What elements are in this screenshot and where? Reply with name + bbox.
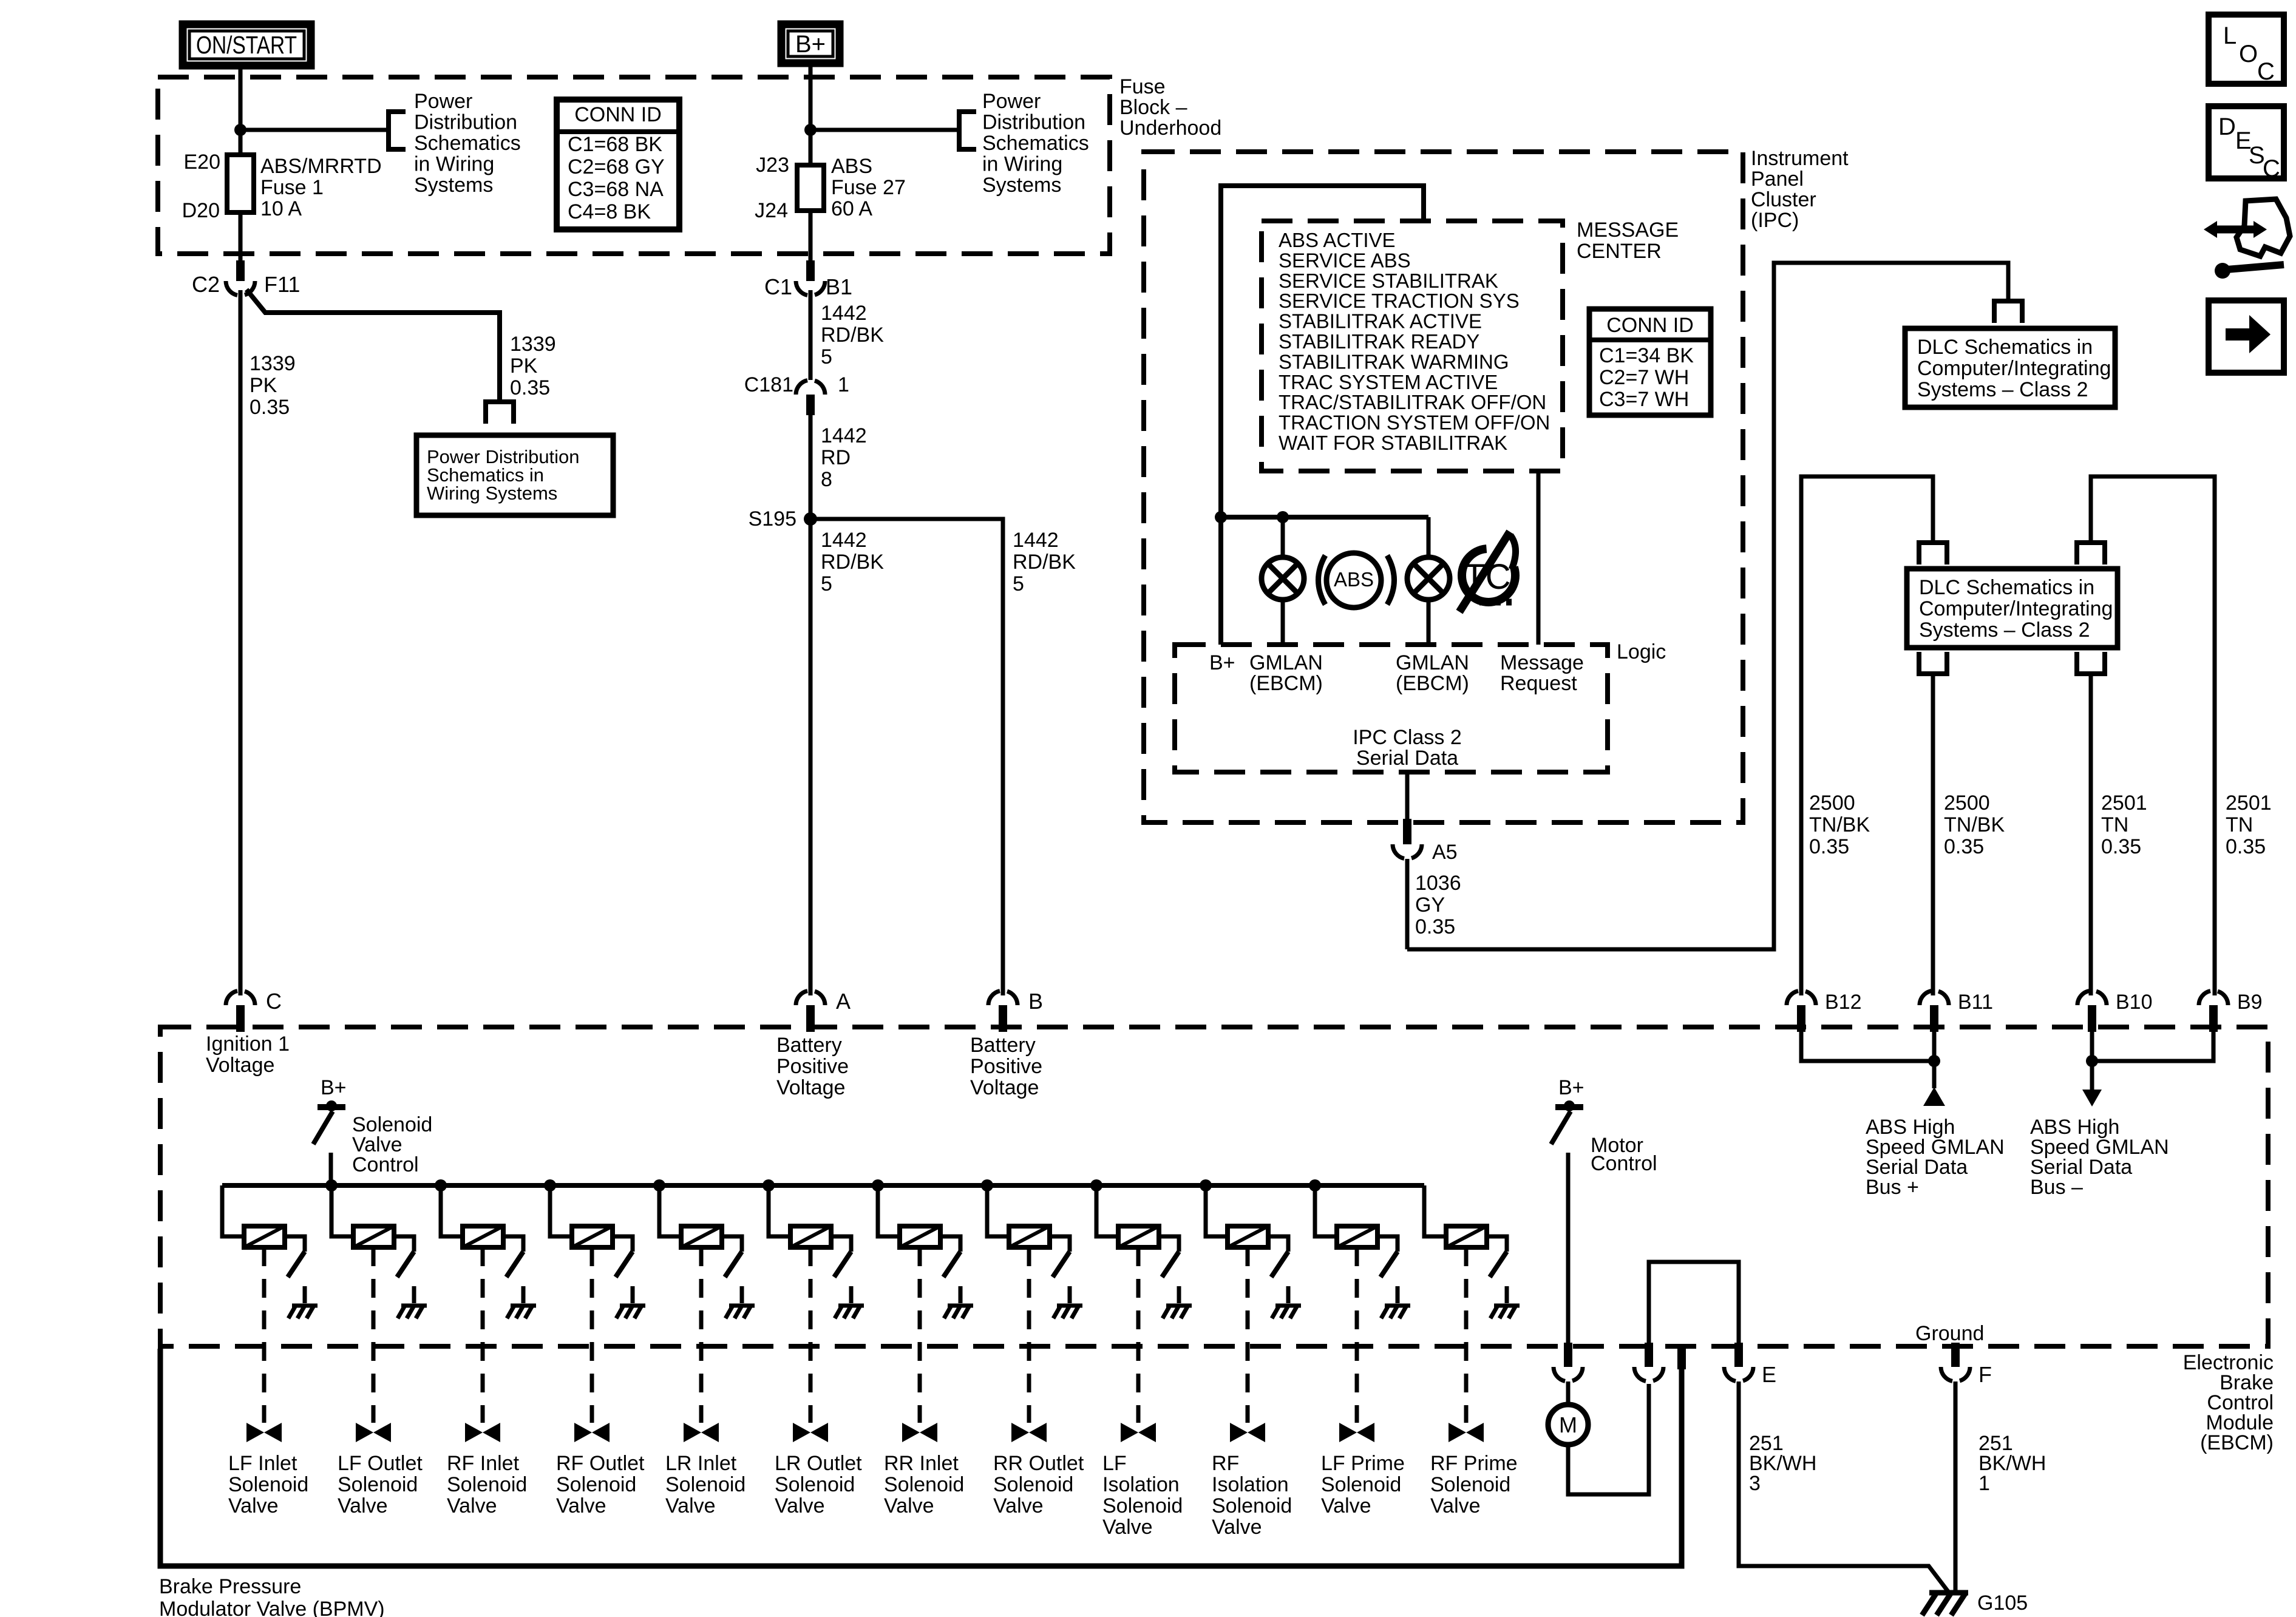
message center dashed box — [1262, 221, 1563, 471]
svg-text:RD/BK: RD/BK — [821, 324, 884, 347]
wire rail drop RF Outlet — [550, 1185, 572, 1236]
svg-text:Ignition 1: Ignition 1 — [206, 1032, 290, 1056]
svg-text:0.35: 0.35 — [1415, 915, 1455, 938]
connector pin F EBCM bottom — [1951, 1343, 1960, 1367]
ABS indicator symbol — [1326, 553, 1381, 608]
wire rail drop LF — [1096, 1185, 1118, 1236]
ground internal LF Prime — [1385, 1304, 1410, 1308]
svg-text:Valve: Valve — [228, 1494, 279, 1517]
wire branch 1339 PK to power distribution box — [246, 290, 500, 402]
svg-text:Underhood: Underhood — [1119, 117, 1221, 140]
wire to traction lamp — [1427, 517, 1431, 557]
svg-text:Bus +: Bus + — [1866, 1176, 1919, 1199]
svg-text:F: F — [1978, 1362, 1992, 1387]
wire B+ feeder inside IPC — [1221, 186, 1424, 645]
wire B10 to B9 junction — [2092, 1032, 2213, 1061]
valve link dashed LF — [1136, 1247, 1141, 1423]
svg-text:LF Outlet: LF Outlet — [338, 1452, 423, 1475]
wire to power distribution pointer — [240, 128, 389, 132]
svg-text:B9: B9 — [2237, 991, 2263, 1014]
svg-text:in Wiring: in Wiring — [982, 153, 1062, 176]
svg-text:0.35: 0.35 — [510, 376, 550, 399]
svg-text:SERVICE ABS: SERVICE ABS — [1279, 249, 1411, 271]
wire switch to ground LF Outlet — [412, 1286, 416, 1303]
svg-text:RD/BK: RD/BK — [821, 551, 884, 574]
svg-text:Fuse 1: Fuse 1 — [260, 176, 324, 199]
off-page bracket into power distribution box — [486, 402, 514, 424]
svg-text:B+: B+ — [1558, 1076, 1584, 1099]
svg-text:Wiring Systems: Wiring Systems — [427, 483, 557, 504]
valve link dashed RF — [1246, 1247, 1250, 1423]
svg-text:Valve: Valve — [338, 1494, 388, 1517]
wire rail drop RR Inlet — [878, 1185, 900, 1236]
svg-text:LF Inlet: LF Inlet — [228, 1452, 297, 1475]
valve link dashed RF Prime — [1464, 1247, 1469, 1423]
svg-text:S195: S195 — [749, 507, 796, 531]
wire B12 to B11 junction — [1801, 1032, 1934, 1061]
wire coil to driver switch LF Outlet — [394, 1236, 414, 1252]
wire fuse 27 to connector C1 — [809, 211, 813, 262]
svg-text:Valve: Valve — [1321, 1494, 1371, 1517]
svg-text:Systems – Class 2: Systems – Class 2 — [1917, 378, 2088, 401]
svg-text:STABILITRAK ACTIVE: STABILITRAK ACTIVE — [1279, 310, 1482, 333]
solenoid coil RF Outlet — [572, 1226, 613, 1247]
off-page bracket into DLC box 1 — [1994, 301, 2022, 323]
wire B10 stem — [2090, 1032, 2094, 1091]
valve link dashed RR Outlet — [1027, 1247, 1031, 1423]
svg-text:0.35: 0.35 — [1809, 835, 1849, 858]
connector pin C EBCM — [226, 991, 237, 1005]
driver switch RF Prime — [1490, 1252, 1507, 1277]
junction dot B10 — [2086, 1055, 2098, 1067]
wire 2501 TN B9 riser — [2091, 476, 2215, 995]
valve symbol RF Outlet solenoid valve — [574, 1423, 592, 1442]
svg-text:RF Inlet: RF Inlet — [447, 1452, 520, 1475]
svg-text:Schematics: Schematics — [982, 132, 1089, 155]
wire B+ to fuse 27 — [809, 67, 813, 165]
svg-text:GY: GY — [1415, 893, 1445, 917]
wire solenoid supply rail — [222, 1183, 1424, 1188]
solenoid coil LF Prime — [1337, 1226, 1377, 1247]
driver switch LF — [1162, 1252, 1179, 1277]
wire motor return inside EBCM — [1649, 1262, 1739, 1343]
wire to brake warning lamp — [1281, 517, 1285, 557]
wire switch to ground LR Inlet — [740, 1286, 744, 1303]
svg-text:Control: Control — [1591, 1152, 1657, 1175]
svg-text:DLC Schematics in: DLC Schematics in — [1917, 336, 2093, 359]
wire 2501 TN B10 drop — [2089, 674, 2093, 995]
instrument panel cluster IPC dashed box — [1144, 152, 1743, 822]
svg-text:B1: B1 — [826, 274, 852, 299]
svg-text:RF Outlet: RF Outlet — [556, 1452, 645, 1475]
wire rail drop RF — [1206, 1185, 1228, 1236]
svg-text:Solenoid: Solenoid — [447, 1473, 527, 1496]
svg-text:ABS/MRRTD: ABS/MRRTD — [260, 155, 382, 178]
wire to power distribution pointer 2 — [810, 128, 959, 132]
driver switch RR Inlet — [943, 1252, 960, 1277]
junction dot rail tap 4 — [544, 1179, 556, 1192]
off-page bracket into DLC box 2 left — [1919, 543, 1947, 564]
svg-text:CENTER: CENTER — [1577, 240, 1662, 263]
connector pin B11 EBCM — [1920, 991, 1931, 1005]
svg-text:1036: 1036 — [1415, 872, 1461, 895]
svg-text:Positive: Positive — [776, 1055, 849, 1078]
valve symbol LF Prime solenoid valve — [1339, 1423, 1357, 1442]
solenoid coil RF Inlet — [463, 1226, 503, 1247]
svg-text:Solenoid: Solenoid — [556, 1473, 636, 1496]
svg-text:0.35: 0.35 — [2101, 835, 2141, 858]
wire 2500 TN/BK B11 drop — [1931, 674, 1935, 995]
icon box forward arrow — [2209, 300, 2284, 373]
junction dot rail tap 10 — [1200, 1179, 1212, 1192]
wire rail drop LR Outlet — [769, 1185, 790, 1236]
svg-text:C2: C2 — [192, 272, 220, 297]
svg-text:IPC Class 2: IPC Class 2 — [1353, 726, 1462, 749]
wire branch S195 to pin B — [810, 519, 1003, 995]
wire 1442 RD 8 segment — [809, 415, 813, 515]
wire motor control down — [1566, 1153, 1571, 1343]
wire 2500 TN/BK B12 riser — [1801, 476, 1933, 995]
connector pin B10 EBCM — [2077, 991, 2089, 1005]
svg-text:Schematics: Schematics — [414, 132, 521, 155]
svg-text:DLC Schematics in: DLC Schematics in — [1919, 576, 2094, 599]
valve link dashed LR Outlet — [809, 1247, 813, 1423]
svg-text:Message: Message — [1500, 651, 1584, 674]
valve symbol RR Inlet solenoid valve — [902, 1423, 920, 1442]
wire coil to driver switch RR Outlet — [1050, 1236, 1070, 1252]
valve link dashed RR Inlet — [918, 1247, 922, 1423]
svg-text:1442: 1442 — [821, 529, 867, 552]
svg-text:E: E — [1762, 1362, 1776, 1387]
svg-text:MESSAGE: MESSAGE — [1577, 219, 1679, 242]
svg-text:Distribution: Distribution — [982, 111, 1085, 134]
junction dot rail tap 8 — [981, 1179, 993, 1192]
driver switch RF — [1271, 1252, 1288, 1277]
svg-text:0.35: 0.35 — [2226, 835, 2266, 858]
solenoid coil RR Outlet — [1009, 1226, 1050, 1247]
svg-text:ABS: ABS — [1334, 568, 1374, 591]
junction dot B11 — [1928, 1055, 1940, 1067]
box Power Distribution Schematics in Wiring Systems — [416, 435, 613, 515]
wire 1339 PK main run to EBCM pin C — [239, 290, 243, 995]
junction dot rail tap 6 — [763, 1179, 775, 1192]
svg-text:Isolation: Isolation — [1102, 1473, 1180, 1496]
driver switch LF Inlet — [288, 1252, 305, 1277]
valve symbol RF solenoid valve — [1230, 1423, 1248, 1442]
svg-text:GMLAN: GMLAN — [1249, 651, 1323, 674]
valve link dashed LF Prime — [1355, 1247, 1359, 1423]
svg-text:Voltage: Voltage — [206, 1054, 274, 1077]
icon wiring repair — [2217, 226, 2254, 234]
svg-text:LR Inlet: LR Inlet — [665, 1452, 737, 1475]
arrow up GMLAN bus plus — [1923, 1087, 1945, 1106]
valve symbol RF Prime solenoid valve — [1449, 1423, 1466, 1442]
svg-text:Solenoid: Solenoid — [665, 1473, 746, 1496]
off-page bracket out of DLC box 2 left — [1919, 652, 1947, 674]
indicator lamp brake warning — [1262, 557, 1304, 600]
wire fuse 1 to connector C2 — [239, 212, 243, 262]
logic dashed box IPC class 2 serial data — [1175, 645, 1608, 772]
svg-text:RD: RD — [821, 446, 851, 469]
wire 1442 RD/BK 5 segment — [809, 290, 813, 380]
junction dot rail tap 5 — [653, 1179, 665, 1192]
svg-text:TRAC SYSTEM ACTIVE: TRAC SYSTEM ACTIVE — [1279, 371, 1498, 393]
switch solenoid valve control — [313, 1111, 333, 1144]
wire coil to driver switch LR Inlet — [722, 1236, 742, 1252]
svg-text:Cluster: Cluster — [1751, 188, 1816, 211]
wire 1036 GY down — [1405, 859, 1410, 949]
svg-text:Solenoid: Solenoid — [1102, 1494, 1183, 1517]
connector motor feed EBCM bottom — [1564, 1343, 1572, 1367]
electronic brake control module dashed box — [160, 1027, 2268, 1346]
wire switch to rail — [329, 1153, 333, 1185]
wire coil to driver switch RF Inlet — [503, 1236, 523, 1252]
svg-text:5: 5 — [1013, 572, 1024, 595]
wire switch to ground RR Outlet — [1068, 1286, 1072, 1303]
pump motor M — [1548, 1405, 1588, 1445]
valve link dashed LR Inlet — [699, 1247, 704, 1423]
svg-text:CONN ID: CONN ID — [574, 103, 662, 126]
connector pin E EBCM bottom — [1734, 1343, 1743, 1367]
wire switch to ground RF Outlet — [631, 1286, 635, 1303]
driver switch RF Outlet — [616, 1252, 633, 1277]
wire traction lamp to logic box — [1427, 600, 1431, 645]
svg-text:Voltage: Voltage — [776, 1076, 845, 1099]
svg-text:C181: C181 — [744, 373, 793, 396]
svg-text:Request: Request — [1500, 672, 1577, 695]
svg-text:1442: 1442 — [821, 424, 867, 447]
arrow down GMLAN bus minus — [2082, 1090, 2102, 1107]
svg-text:1: 1 — [838, 373, 849, 396]
svg-text:Logic: Logic — [1617, 640, 1666, 663]
wire switch to ground LF — [1177, 1286, 1181, 1303]
power feed box ON/START — [183, 24, 311, 66]
valve symbol RR Outlet solenoid valve — [1011, 1423, 1029, 1442]
wire coil to driver switch LF Prime — [1377, 1236, 1398, 1252]
svg-text:Systems: Systems — [982, 174, 1061, 197]
wire rail drop RF Prime — [1424, 1185, 1446, 1236]
svg-text:1339: 1339 — [510, 333, 556, 356]
wire coil to driver switch LR Outlet — [831, 1236, 851, 1252]
svg-text:SERVICE TRACTION SYS: SERVICE TRACTION SYS — [1279, 290, 1520, 312]
wire lamp to logic box — [1281, 600, 1285, 645]
svg-text:3: 3 — [1749, 1472, 1761, 1495]
wire to pump motor — [1566, 1381, 1571, 1405]
svg-text:Computer/Integrating: Computer/Integrating — [1919, 597, 2113, 620]
svg-text:Power: Power — [414, 90, 472, 113]
svg-text:Positive: Positive — [970, 1055, 1042, 1078]
svg-text:C4=8 BK: C4=8 BK — [568, 200, 651, 223]
connector C1 pin B1 — [806, 260, 815, 281]
brake pressure modulator valve box — [160, 1349, 1682, 1566]
svg-text:LF Prime: LF Prime — [1321, 1452, 1405, 1475]
svg-text:Valve: Valve — [665, 1494, 716, 1517]
svg-text:Distribution: Distribution — [414, 111, 517, 134]
svg-text:Solenoid: Solenoid — [993, 1473, 1073, 1496]
ground internal RF Outlet — [620, 1304, 645, 1308]
wire coil to driver switch RF — [1268, 1236, 1288, 1252]
svg-text:(EBCM): (EBCM) — [2200, 1431, 2274, 1454]
svg-text:10 A: 10 A — [260, 197, 302, 220]
svg-text:Isolation: Isolation — [1212, 1473, 1289, 1496]
svg-text:M: M — [1559, 1412, 1577, 1437]
svg-text:0.35: 0.35 — [250, 396, 290, 419]
svg-text:Solenoid: Solenoid — [884, 1473, 964, 1496]
ground internal LF Outlet — [401, 1304, 427, 1308]
svg-text:5: 5 — [821, 572, 832, 595]
svg-text:RF: RF — [1212, 1452, 1239, 1475]
off-page bracket to Power Distribution Schematics — [389, 112, 406, 149]
fuse F27 ABS 60A — [797, 165, 824, 211]
svg-text:Valve: Valve — [775, 1494, 825, 1517]
svg-text:LR Outlet: LR Outlet — [775, 1452, 862, 1475]
svg-text:GMLAN: GMLAN — [1396, 651, 1469, 674]
off-page bracket out of DLC box 2 right — [2077, 652, 2105, 674]
wire rail drop LF Outlet — [331, 1185, 353, 1236]
connector motor return EBCM bottom — [1645, 1343, 1653, 1367]
wire rail drop RF Inlet — [441, 1185, 463, 1236]
valve link dashed LF Inlet — [262, 1247, 267, 1423]
svg-text:Power: Power — [982, 90, 1041, 113]
svg-text:B: B — [1028, 989, 1043, 1014]
svg-text:F11: F11 — [264, 272, 300, 297]
svg-text:C2=68 GY: C2=68 GY — [568, 155, 665, 178]
wire motor return loop — [1568, 1384, 1649, 1494]
ground internal RR Inlet — [948, 1304, 973, 1308]
svg-text:ABS ACTIVE: ABS ACTIVE — [1279, 229, 1396, 251]
svg-text:C1: C1 — [764, 274, 792, 299]
svg-text:TN/BK: TN/BK — [1809, 813, 1870, 836]
svg-text:Block –: Block – — [1119, 96, 1187, 119]
icon box LOC — [2209, 15, 2284, 84]
wire switch to ground RR Inlet — [959, 1286, 963, 1303]
svg-text:Valve: Valve — [993, 1494, 1044, 1517]
junction dot at B+ feeder — [1215, 511, 1227, 523]
svg-text:C: C — [2257, 58, 2275, 85]
svg-text:RD/BK: RD/BK — [1013, 551, 1076, 574]
connector pin B12 EBCM — [1787, 991, 1798, 1005]
svg-text:B+: B+ — [795, 31, 826, 58]
svg-text:J24: J24 — [755, 199, 788, 222]
svg-text:C3=7 WH: C3=7 WH — [1599, 388, 1689, 411]
svg-text:TN/BK: TN/BK — [1944, 813, 2005, 836]
svg-text:TRAC/STABILITRAK OFF/ON: TRAC/STABILITRAK OFF/ON — [1279, 391, 1546, 413]
svg-text:1442: 1442 — [1013, 529, 1059, 552]
valve link dashed LF Outlet — [372, 1247, 376, 1423]
driver switch LR Outlet — [834, 1252, 851, 1277]
svg-text:Solenoid: Solenoid — [1212, 1494, 1292, 1517]
solenoid coil LF — [1118, 1226, 1159, 1247]
wire B11 stem — [1932, 1032, 1937, 1088]
svg-text:PK: PK — [510, 354, 538, 378]
svg-text:(EBCM): (EBCM) — [1249, 672, 1323, 695]
ground G105 — [1929, 1590, 1968, 1596]
valve symbol LR Outlet solenoid valve — [793, 1423, 810, 1442]
svg-text:A5: A5 — [1432, 841, 1458, 864]
splice S195 — [804, 512, 817, 526]
svg-text:Solenoid: Solenoid — [775, 1473, 855, 1496]
connector pin B9 EBCM — [2199, 991, 2210, 1005]
svg-text:5: 5 — [821, 345, 832, 368]
driver switch LR Inlet — [725, 1252, 742, 1277]
svg-text:RR Inlet: RR Inlet — [884, 1452, 959, 1475]
driver switch RF Inlet — [506, 1252, 523, 1277]
junction dot rail tap 9 — [1090, 1179, 1102, 1192]
svg-text:Valve: Valve — [1430, 1494, 1481, 1517]
ground internal RF Prime — [1494, 1304, 1520, 1308]
svg-text:Valve: Valve — [884, 1494, 934, 1517]
junction dot node at fuse 27 feed — [804, 124, 817, 136]
fuse block underhood dashed box — [158, 77, 1110, 254]
svg-text:LF: LF — [1102, 1452, 1127, 1475]
junction dot rail tap 7 — [872, 1179, 884, 1192]
svg-text:1339: 1339 — [250, 352, 296, 375]
ground internal LF Inlet — [292, 1304, 318, 1308]
wire coil to driver switch LF — [1159, 1236, 1179, 1252]
svg-text:C: C — [266, 989, 282, 1014]
wire S195 down to pin A — [809, 519, 813, 995]
solenoid coil LR Inlet — [681, 1226, 722, 1247]
svg-text:Systems – Class 2: Systems – Class 2 — [1919, 619, 2090, 642]
svg-text:B11: B11 — [1958, 991, 1993, 1014]
svg-text:2500: 2500 — [1944, 792, 1990, 815]
svg-text:Bus –: Bus – — [2030, 1176, 2083, 1199]
svg-text:TN: TN — [2226, 813, 2253, 836]
off-page bracket into DLC box 2 right — [2077, 543, 2105, 564]
wire switch to ground LF Prime — [1396, 1286, 1400, 1303]
solenoid coil LF Inlet — [244, 1226, 285, 1247]
svg-text:60 A: 60 A — [831, 197, 872, 220]
valve link dashed RF Outlet — [590, 1247, 594, 1423]
svg-text:Serial Data: Serial Data — [1356, 747, 1458, 770]
ground internal RF Inlet — [511, 1304, 536, 1308]
svg-text:D: D — [2218, 114, 2236, 140]
valve symbol LF Outlet solenoid valve — [356, 1423, 373, 1442]
svg-text:E20: E20 — [184, 151, 221, 174]
svg-text:Battery: Battery — [970, 1034, 1036, 1057]
svg-text:8: 8 — [821, 468, 832, 491]
junction dot rail tap 3 — [435, 1179, 447, 1192]
svg-text:D20: D20 — [182, 199, 220, 222]
svg-text:2501: 2501 — [2101, 792, 2147, 815]
svg-text:Solenoid: Solenoid — [1430, 1473, 1510, 1496]
wire rail drop RR Outlet — [987, 1185, 1009, 1236]
svg-text:ABS: ABS — [831, 155, 872, 178]
ground internal LF — [1166, 1304, 1192, 1308]
svg-text:TRACTION SYSTEM OFF/ON: TRACTION SYSTEM OFF/ON — [1279, 412, 1550, 434]
svg-text:J23: J23 — [756, 154, 789, 177]
svg-text:1442: 1442 — [821, 302, 867, 325]
wire 251 BK/WH 3 to ground — [1739, 1381, 1948, 1592]
solenoid coil LF Outlet — [353, 1226, 394, 1247]
svg-text:STABILITRAK WARMING: STABILITRAK WARMING — [1279, 350, 1509, 373]
svg-text:Solenoid: Solenoid — [338, 1473, 418, 1496]
wire switch to ground LR Outlet — [849, 1286, 854, 1303]
svg-text:STABILITRAK READY: STABILITRAK READY — [1279, 330, 1479, 353]
wire rail drop LR Inlet — [659, 1185, 681, 1236]
driver switch RR Outlet — [1053, 1252, 1070, 1277]
svg-text:(IPC): (IPC) — [1751, 209, 1799, 232]
svg-text:Valve: Valve — [556, 1494, 606, 1517]
svg-text:O: O — [2239, 41, 2258, 67]
svg-text:L: L — [2223, 22, 2237, 49]
svg-text:WAIT FOR STABILITRAK: WAIT FOR STABILITRAK — [1279, 432, 1507, 454]
svg-text:C1=68 BK: C1=68 BK — [568, 133, 662, 156]
svg-text:C1=34 BK: C1=34 BK — [1599, 344, 1694, 367]
solenoid coil RR Inlet — [900, 1226, 940, 1247]
svg-text:Valve: Valve — [1212, 1516, 1262, 1539]
valve symbol LF Inlet solenoid valve — [246, 1423, 264, 1442]
